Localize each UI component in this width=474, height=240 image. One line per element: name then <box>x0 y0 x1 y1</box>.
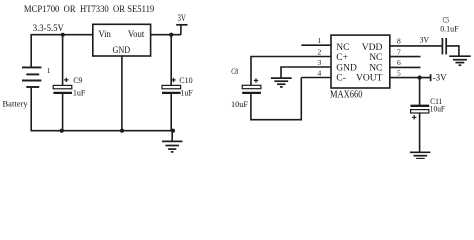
wire input top rail <box>31 34 93 36</box>
svg-text:GND: GND <box>113 46 131 56</box>
wire C10 bottom lead <box>170 93 172 131</box>
wire C10 top lead <box>170 35 172 86</box>
capacitor C9 <box>53 78 72 93</box>
svg-text:NC: NC <box>369 53 382 63</box>
capacitor C10 <box>162 78 181 93</box>
capacitor C8 <box>242 78 261 93</box>
wire C11 bottom lead <box>419 113 421 152</box>
svg-text:C+: C+ <box>336 53 348 63</box>
wire left ground stub <box>171 131 173 142</box>
wire battery top lead <box>30 34 32 67</box>
wire pin4 stub <box>301 77 331 79</box>
svg-text:3.3-5.5V: 3.3-5.5V <box>33 24 64 34</box>
wire pin7 stub <box>390 56 421 58</box>
svg-text:7: 7 <box>397 47 401 56</box>
ground (C11) <box>410 152 431 158</box>
node junction: VOUT / C11 <box>418 76 422 80</box>
svg-text:Vin: Vin <box>99 30 112 40</box>
node -3V terminal bar <box>430 74 432 81</box>
battery <box>22 67 41 87</box>
IC MAX660 box <box>331 35 390 88</box>
wire pin1 stub <box>301 44 331 46</box>
svg-text:1: 1 <box>47 66 51 75</box>
ground (C5) <box>449 56 471 65</box>
wire C9 top lead <box>62 35 64 86</box>
svg-text:VOUT: VOUT <box>356 73 383 83</box>
svg-text:C10: C10 <box>179 76 192 85</box>
svg-text:Battery: Battery <box>3 98 29 108</box>
wire pin8 to C5 <box>390 45 442 47</box>
svg-text:1uF: 1uF <box>180 89 193 98</box>
svg-text:1: 1 <box>318 36 322 45</box>
svg-text:6: 6 <box>397 58 401 67</box>
svg-text:1uF: 1uF <box>73 89 86 98</box>
svg-text:C8: C8 <box>231 67 238 76</box>
regulator U1 box <box>93 24 151 56</box>
svg-text:3V: 3V <box>178 13 187 23</box>
node junction: output rail / C10 <box>169 33 173 37</box>
wire regulator GND lead <box>121 56 123 131</box>
svg-text:GND: GND <box>336 64 357 74</box>
node junction: input rail / C9 <box>61 33 65 37</box>
wire output rail <box>151 34 181 36</box>
wire pin2 to C8 top <box>251 57 331 86</box>
svg-text:-3V: -3V <box>433 73 447 83</box>
svg-text:C-: C- <box>336 73 346 83</box>
svg-text:0.1uF: 0.1uF <box>440 24 459 34</box>
capacitor C5 <box>442 38 446 54</box>
node junction: bottom rail / ground <box>171 129 175 133</box>
svg-text:NC: NC <box>336 43 349 53</box>
wire pin5 VOUT to -3V bar <box>390 77 431 79</box>
svg-text:C9: C9 <box>73 76 82 85</box>
svg-text:MAX660: MAX660 <box>330 90 363 101</box>
wire C- loop to C8 bottom <box>251 78 301 120</box>
svg-text:VDD: VDD <box>362 43 383 53</box>
svg-text:10uF: 10uF <box>430 105 446 114</box>
svg-text:2: 2 <box>318 47 322 56</box>
wire bottom rail <box>31 130 174 132</box>
svg-text:10uF: 10uF <box>231 99 248 109</box>
wire C9 bottom lead <box>62 93 64 131</box>
wire C11 top lead <box>419 78 421 106</box>
svg-text:3V: 3V <box>420 34 430 44</box>
wire pin6 stub <box>390 66 421 68</box>
svg-text:5: 5 <box>397 68 401 77</box>
wire C5 right to ground <box>447 46 459 56</box>
node junction: bottom rail / regulator GND <box>120 129 124 133</box>
capacitor C11 <box>411 106 430 120</box>
svg-text:3: 3 <box>318 58 322 67</box>
node 3V terminal bar <box>176 24 187 26</box>
ground (left circuit bottom) <box>162 141 182 152</box>
wire 3V terminal riser <box>180 25 182 35</box>
svg-text:8: 8 <box>397 36 401 45</box>
ground (MAX660 pin3) <box>271 78 292 87</box>
wire battery bottom lead <box>30 87 32 131</box>
svg-text:NC: NC <box>369 64 382 74</box>
svg-text:4: 4 <box>318 68 322 77</box>
svg-text:Vout: Vout <box>128 30 145 40</box>
node junction: bottom rail / C9 <box>60 129 64 133</box>
svg-text:MCP1700 OR HT7330 OR SE5119: MCP1700 OR HT7330 OR SE5119 <box>24 5 155 15</box>
wire pin3 to ground <box>281 67 331 78</box>
